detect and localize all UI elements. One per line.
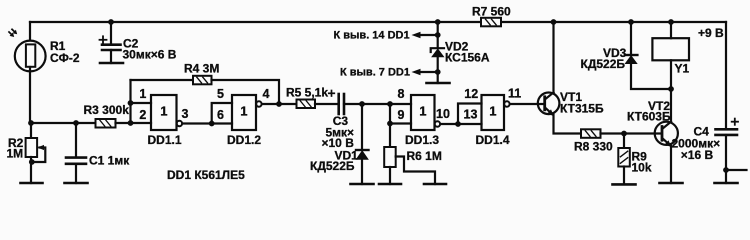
svg-text:КТ603Б: КТ603Б (627, 110, 671, 124)
wire tap to pin 7 label with arrow (412, 69, 438, 75)
node junction R1/R2/C1 row (28, 120, 34, 126)
svg-text:DD1.1: DD1.1 (148, 133, 182, 147)
node DD1.3 pin9 junction (387, 121, 393, 127)
node DD1.2 input trunk junction (209, 121, 215, 127)
diode VD3 (625, 55, 638, 64)
gate DD1.1 (151, 95, 177, 130)
zener VD2 (431, 48, 444, 57)
wire VD1 bottom lead (361, 159, 363, 184)
wire DD1.2 out to R5 (262, 103, 296, 105)
svg-text:+9 В: +9 В (698, 26, 724, 40)
wire tap to pin 14 label with arrow (412, 32, 438, 38)
wire DD1.3 pin9 (390, 122, 411, 124)
wire R1 bottom lead (29, 67, 31, 123)
svg-text:DD1.3: DD1.3 (405, 133, 439, 147)
svg-text:11: 11 (508, 87, 521, 101)
node DD1.1 pin1 junction (128, 100, 134, 106)
node pin7 tap junction (435, 69, 441, 75)
node R2 wiper junction (29, 159, 35, 165)
wire row C1 to R3 (76, 122, 96, 124)
wire R5 to C3 (315, 103, 339, 105)
wire right edge down to C4 (725, 22, 727, 129)
node VD2 rail junction (435, 19, 441, 25)
svg-text:9: 9 (398, 108, 405, 122)
node VD3 rail junction (628, 19, 634, 25)
svg-text:DD1.4: DD1.4 (476, 133, 510, 147)
ground under VD1 (351, 183, 374, 186)
svg-text:×16 В: ×16 В (681, 148, 714, 162)
node C4 output stub junction (723, 167, 729, 173)
svg-text:8: 8 (398, 87, 405, 101)
wire R1 top lead (29, 22, 31, 44)
wire VD3 bottom link (631, 63, 671, 90)
gate DD1.3 (411, 95, 435, 130)
resistor R7 (481, 18, 501, 27)
svg-text:КД522Б: КД522Б (581, 57, 626, 71)
svg-text:R6 1М: R6 1М (407, 149, 442, 163)
node DD1.4 input trunk junction (455, 121, 461, 127)
node junction C1 top (73, 120, 79, 126)
svg-text:1М: 1М (7, 146, 24, 160)
resistor R8 (581, 129, 601, 138)
gate DD1.2 output circle pin4 (256, 101, 261, 106)
resistor R3 (96, 119, 116, 128)
wire row to C1 (31, 122, 76, 124)
svg-text:К выв. 14 DD1: К выв. 14 DD1 (334, 30, 410, 42)
node VD1 junction (359, 101, 365, 107)
ground under R9 (613, 183, 636, 186)
resistor R9 (618, 148, 630, 167)
node R4 / DD1.2 output junction (276, 101, 282, 107)
wire C1 top lead (75, 123, 77, 157)
svg-text:4: 4 (263, 87, 270, 101)
wire top +9V rail (30, 21, 726, 23)
svg-text:1: 1 (419, 104, 426, 119)
R6 trimmer tap to ground (396, 157, 435, 185)
wire Y1 bottom lead (670, 60, 672, 89)
svg-text:13: 13 (464, 108, 478, 122)
resistor R2 (variable) (26, 138, 37, 157)
capacitor C4 polarized (716, 129, 738, 135)
wire R9 bottom lead (623, 167, 625, 185)
wire R9 top lead (623, 134, 625, 149)
wire output stub (726, 169, 747, 171)
wire DD1.4 pin12 trunk (458, 104, 482, 125)
R2 wiper arm (32, 145, 46, 162)
gate DD1.4 (482, 95, 505, 130)
svg-text:1: 1 (139, 87, 146, 101)
gate DD1.2 (232, 95, 256, 130)
transistor VT2 (655, 122, 678, 147)
wire DD1.3 out to DD1.4 pin13 (441, 123, 482, 125)
svg-text:R3 300k: R3 300k (84, 103, 130, 117)
ground under VT2 emitter (660, 182, 683, 185)
capacitor C3 polarized (339, 94, 344, 114)
ground under C4 (715, 182, 738, 185)
node R6 trunk top junction (387, 101, 393, 107)
wire C1 bottom lead (75, 164, 77, 183)
wire C4 bottom lead (725, 135, 727, 183)
wire Y1 top lead (670, 22, 672, 38)
node VT1 collector rail junction (551, 19, 557, 25)
wire R8 to VT2 base (601, 132, 662, 134)
wire C3 to DD1.3 pin8 (344, 103, 411, 105)
svg-text:КТ315Б: КТ315Б (560, 102, 604, 116)
svg-text:R8 330: R8 330 (574, 140, 613, 154)
capacitor C1 (66, 158, 86, 164)
photoresistor R1 (15, 41, 46, 72)
svg-text:3: 3 (182, 107, 189, 121)
ground under VD2 (427, 82, 450, 85)
C3 plus sign (329, 91, 335, 97)
C4 plus sign (732, 119, 738, 125)
svg-text:30мк×6 В: 30мк×6 В (123, 47, 177, 61)
wire VT1 collector (552, 22, 554, 93)
wire DD1.3 pins trunk (389, 104, 391, 147)
node VT2 collector / Y1 / VD3 junction (668, 86, 674, 92)
wire VD1 top lead (361, 104, 363, 150)
svg-text:КС156А: КС156А (445, 51, 490, 65)
wire VD3 top lead (630, 22, 632, 55)
svg-text:R5 5,1k: R5 5,1k (286, 86, 328, 100)
svg-text:R7 560: R7 560 (472, 5, 511, 19)
node R9 junction (621, 131, 627, 137)
wire DD1.4 out to VT1 base (510, 103, 544, 105)
gate DD1.3 output circle pin10 (435, 121, 440, 126)
svg-text:R4 3М: R4 3М (184, 62, 219, 76)
wire DD1.1 input trunk (129, 80, 131, 123)
svg-text:1: 1 (160, 104, 167, 119)
node junction C2 on rail (108, 19, 114, 25)
gate DD1.4 output circle pin11 (504, 101, 509, 106)
light arrow 2 into R1 (12, 29, 17, 34)
wire VT1 emitter down to R8 (554, 115, 582, 134)
wire VD2 trunk upper (437, 22, 439, 48)
svg-text:12: 12 (464, 87, 478, 101)
gate DD1.1 output circle pin3 (177, 121, 182, 126)
wire DD1.2 pin5 trunk (212, 103, 232, 124)
node DD1.1 pin2 junction (128, 120, 134, 126)
resistor R5 (297, 100, 316, 109)
wire DD1.1 pin1 (131, 102, 152, 104)
capacitor C2 polarized (102, 45, 121, 50)
relay Y1 coil (652, 38, 689, 60)
resistor R6 (trimmer) (384, 147, 396, 167)
ground under R2 (21, 182, 43, 185)
C2 plus sign (100, 36, 107, 43)
wire R3 to DD1.1 inputs (116, 122, 152, 124)
transistor VT1 (538, 93, 560, 116)
wire R6 bottom lead (389, 167, 391, 184)
svg-text:6: 6 (217, 108, 224, 122)
svg-text:10: 10 (436, 107, 450, 121)
wire VT2 emitter (670, 146, 672, 183)
svg-text:DD1.2: DD1.2 (227, 133, 261, 147)
wire C2 bottom lead (110, 50, 112, 63)
svg-text:DD1 К561ЛЕ5: DD1 К561ЛЕ5 (167, 168, 245, 182)
wire R2 top lead (30, 123, 32, 138)
wire R2 bottom lead (30, 157, 32, 183)
svg-text:С1 1мк: С1 1мк (89, 154, 130, 168)
ground under R6 (379, 183, 401, 186)
wire R4 to DD1.2 output (212, 80, 280, 104)
svg-text:5: 5 (217, 87, 224, 101)
ground under C1 (65, 182, 88, 185)
wire VD2 bottom (437, 57, 439, 83)
ground under R6 tap (424, 183, 446, 186)
svg-text:1: 1 (240, 104, 247, 119)
resistor R4 (193, 76, 212, 85)
wire VT2 collector (670, 89, 672, 122)
wire DD1.1 out to DD1.2 pin6 (183, 122, 232, 124)
svg-text:КД522Б: КД522Б (310, 159, 355, 173)
svg-text:Y1: Y1 (675, 62, 690, 76)
light arrow 1 into R1 (9, 32, 14, 37)
ground under C2 (100, 62, 123, 65)
svg-text:СФ-2: СФ-2 (50, 51, 80, 65)
svg-text:К выв. 7 DD1: К выв. 7 DD1 (340, 67, 410, 79)
svg-text:1: 1 (489, 104, 496, 119)
node Y1 rail junction (668, 19, 674, 25)
svg-text:10k: 10k (632, 160, 652, 174)
node pin14 tap junction (435, 32, 441, 38)
svg-text:2: 2 (139, 108, 146, 122)
diode VD1 (356, 150, 369, 159)
wire C2 top lead (110, 22, 112, 44)
resistor R4 feedback wire left (131, 79, 194, 81)
